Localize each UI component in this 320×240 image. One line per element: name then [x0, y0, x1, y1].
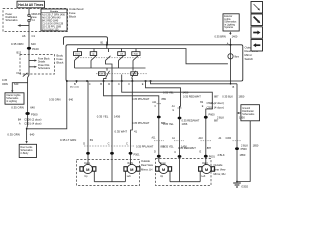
wire 2 BLK branch from ground box	[238, 121, 250, 182]
switch contact Down	[74, 49, 82, 61]
svg-text:ORN: ORN	[2, 82, 8, 86]
svg-text:A10: A10	[199, 137, 204, 140]
svg-text:Block: Block	[57, 60, 64, 64]
node I/P fuse block dashed box	[20, 55, 55, 75]
node fuse block detail table	[41, 9, 67, 31]
svg-text:Fuse: Fuse	[32, 17, 38, 19]
node label 0.35 PPL/WHT 889 upper	[132, 97, 166, 101]
svg-text:Right: Right	[134, 53, 139, 56]
svg-text:Left: Left	[201, 175, 205, 178]
node Power Distribution Schematics label	[6, 13, 19, 22]
node P600 grommet dots	[157, 113, 215, 120]
svg-text:1456: 1456	[183, 91, 189, 95]
svg-text:C: C	[126, 142, 128, 146]
svg-text:Power: Power	[6, 13, 13, 16]
wire YEL RH lower	[179, 106, 181, 182]
svg-text:Distribution: Distribution	[6, 16, 18, 19]
svg-text:0.35: 0.35	[2, 78, 8, 82]
wire BLK main down	[236, 84, 238, 182]
svg-text:A11: A11	[152, 137, 157, 140]
svg-text:Ground: Ground	[242, 107, 250, 110]
svg-text:P500: P500	[31, 112, 38, 116]
svg-text:in Lighting: in Lighting	[6, 100, 17, 103]
node label 0.35 WHT 41	[115, 130, 138, 134]
node label 0.35 ORN 640 branch	[2, 78, 19, 86]
svg-text:Outside: Outside	[214, 163, 223, 167]
svg-text:0.35 YEL: 0.35 YEL	[97, 114, 109, 118]
svg-text:C: C	[108, 142, 110, 146]
node pin B1 top	[101, 42, 107, 49]
svg-text:in Body: in Body	[21, 153, 30, 155]
svg-text:C500 (2 door): C500 (2 door)	[207, 101, 224, 105]
fuse F MIR/LKS 5A	[28, 14, 41, 22]
svg-text:0.35 PPL/WHT: 0.35 PPL/WHT	[132, 97, 150, 101]
node label 2 BLK 1850 lower	[218, 153, 246, 157]
svg-text:0.35 RED/WHT: 0.35 RED/WHT	[183, 95, 201, 99]
svg-text:Down: Down	[160, 163, 167, 165]
svg-text:E3 0.5 BLK 150: E3 0.5 BLK 150	[42, 29, 59, 31]
wire from Hot At All Times to fuse	[28, 8, 30, 14]
svg-text:F12: F12	[17, 71, 22, 75]
svg-text:0.35 ORN: 0.35 ORN	[11, 42, 23, 46]
node connector row A11 A1 A10	[152, 137, 242, 141]
svg-text:P500: P500	[241, 147, 248, 151]
svg-text:2 BLK: 2 BLK	[241, 144, 248, 148]
svg-text:Schematics: Schematics	[242, 113, 255, 116]
ground distribution reference box	[237, 105, 260, 121]
node P100 grommet	[27, 47, 39, 51]
svg-text:B12: B12	[17, 50, 22, 54]
svg-text:B4: B4	[18, 117, 22, 121]
switch contact Left	[118, 49, 126, 61]
svg-text:0.35 ORN: 0.35 ORN	[7, 132, 19, 136]
svg-text:Door Locks: Door Locks	[21, 146, 34, 149]
motor M3 RH up-down	[156, 163, 172, 178]
svg-text:0.35 YEL: 0.35 YEL	[163, 145, 174, 149]
svg-text:887: 887	[207, 146, 212, 150]
svg-text:0.35 ORN: 0.35 ORN	[49, 97, 61, 101]
node LH mirror connector row	[83, 142, 134, 146]
button nav zoom in	[251, 14, 263, 26]
svg-text:Mirror, RH: Mirror, RH	[214, 172, 226, 176]
node P501 grommet dots	[86, 152, 140, 156]
node P601 grommet dots	[157, 154, 216, 158]
node label 0.35 ORN 640	[11, 42, 36, 46]
svg-text:Distribution: Distribution	[242, 110, 254, 113]
node label 0.35 RED/WHT 887 upper	[183, 95, 219, 99]
svg-text:640: 640	[69, 97, 74, 101]
node connector C500 C501 door pins	[152, 101, 224, 112]
wire ground bus BLK	[151, 81, 238, 89]
svg-text:C501 (4 door): C501 (4 door)	[207, 105, 224, 109]
svg-text:887: 887	[214, 95, 219, 99]
svg-text:Switch: Switch	[245, 57, 254, 61]
svg-text:Schematics: Schematics	[6, 19, 19, 22]
svg-text:Block: Block	[69, 14, 77, 18]
svg-text:Down: Down	[75, 54, 80, 56]
svg-text:1850: 1850	[239, 95, 245, 99]
node label 0.35 PPL/WHT 889 lower	[136, 144, 165, 148]
svg-text:A1 0.35 LT GRN 1456: A1 0.35 LT GRN 1456	[42, 13, 66, 16]
wire branch to dimming reference	[11, 83, 27, 93]
node label 0.35 YEL 1456 mid	[163, 122, 188, 126]
node label 0.35 RED/WHT 887 mid	[182, 119, 219, 123]
svg-text:41: 41	[134, 130, 138, 134]
node P500 grommet	[25, 112, 38, 116]
svg-text:2 BLK: 2 BLK	[217, 116, 224, 120]
svg-text:Schematics: Schematics	[38, 67, 51, 70]
svg-text:C1 0.8 DK GRN 139: C1 0.8 DK GRN 139	[42, 23, 64, 25]
svg-text:0.35 YEL: 0.35 YEL	[163, 122, 174, 126]
svg-text:889: 889	[162, 97, 167, 101]
svg-text:0.35 LT GRN: 0.35 LT GRN	[60, 138, 76, 142]
wire YEL RH jog	[146, 81, 181, 106]
wire jog and junction with switch feed	[26, 125, 28, 140]
node fuse block details reference	[29, 59, 51, 70]
node switch bottom pin letters	[70, 81, 144, 88]
svg-text:Mirror, LH: Mirror, LH	[141, 168, 153, 172]
svg-text:C501 (4 door): C501 (4 door)	[24, 121, 41, 125]
svg-text:1850: 1850	[253, 144, 259, 148]
node label 0.35 PPL/WHT 889 mid	[132, 121, 166, 125]
node Outside Rear View Mirror LH label	[141, 159, 153, 172]
svg-text:Circuits: Circuits	[50, 10, 59, 13]
switch select contact RH	[131, 71, 138, 81]
wire YEL LH	[111, 81, 113, 182]
svg-text:1400: 1400	[232, 35, 238, 39]
node P500 dot on BLK	[235, 147, 247, 151]
svg-text:B4 2 RED 1840: B4 2 RED 1840	[42, 20, 59, 22]
svg-text:Outside: Outside	[141, 159, 150, 163]
svg-text:Rear View: Rear View	[214, 167, 226, 171]
svg-text:0.35 YEL: 0.35 YEL	[163, 91, 174, 95]
svg-text:640: 640	[14, 82, 19, 86]
motor M2 LH left-right	[124, 162, 140, 178]
wire fuse output down	[28, 22, 30, 33]
wire RED/WHT jog	[122, 81, 213, 111]
wire RED/WHT lower	[205, 111, 207, 165]
wire BRN 1400 to exterior lights	[229, 31, 231, 44]
svg-text:Systems: Systems	[224, 26, 234, 29]
node Outside Rear View Mirror LH box	[77, 160, 140, 186]
svg-text:C: C	[89, 82, 91, 86]
svg-text:C300: C300	[226, 138, 232, 140]
svg-text:G: G	[172, 110, 174, 112]
node label 0.35 YEL 1456 LH	[97, 114, 121, 118]
node label 0.35 YEL 1456 lower	[163, 145, 187, 149]
wire bus continuation arrow left	[17, 24, 29, 27]
svg-text:640: 640	[30, 132, 35, 136]
button nav next	[251, 27, 263, 39]
node label 0.35 ORN 640 switch feed	[49, 97, 74, 101]
op switch S1 Outside Rear View Mirror Switch box	[66, 45, 243, 81]
wire ORN 640 from fuse block	[28, 33, 29, 83]
svg-text:in Lighting: in Lighting	[224, 23, 235, 26]
svg-text:C: C	[174, 150, 176, 154]
svg-text:Left: Left	[120, 53, 124, 56]
svg-text:C1: C1	[32, 34, 36, 38]
node Outside Rear View Mirror RH label	[214, 163, 226, 176]
lamp illumination	[228, 45, 239, 84]
svg-text:0.35 PPL/WHT: 0.35 PPL/WHT	[136, 144, 154, 148]
svg-text:1456: 1456	[114, 114, 121, 118]
svg-text:B: B	[100, 82, 102, 86]
svg-text:A6 0.35 ORN 640: A6 0.35 ORN 640	[42, 16, 61, 19]
node Underhood Fuse Block label	[69, 7, 84, 18]
svg-text:A6: A6	[22, 34, 26, 38]
ground G302	[233, 181, 248, 189]
wire main ORN continues	[27, 83, 29, 126]
svg-text:E: E	[200, 149, 202, 153]
svg-text:(Not used): (Not used)	[70, 85, 79, 88]
svg-text:C: C	[118, 82, 120, 86]
node interior lights reference box	[5, 93, 24, 104]
svg-text:Right: Right	[128, 162, 134, 165]
switch contact center	[106, 49, 111, 61]
node Hot At All Times title box	[17, 1, 45, 8]
motor M1 LH up-down	[80, 163, 96, 178]
svg-text:Schematics: Schematics	[224, 21, 237, 24]
node label 0.35 BLK 1850	[222, 95, 245, 99]
wire PPL/WHT jog	[104, 81, 162, 165]
node label 0.35 ORN 640 lower	[7, 132, 34, 136]
node raised notch on switch box	[64, 37, 108, 45]
node switch pin nubs	[66, 44, 231, 82]
node Outside Rear View Mirror RH box	[156, 159, 212, 186]
node label 2 BLK 1850 mid	[217, 116, 245, 120]
node Outside Rear View Mirror Switch label	[245, 45, 259, 61]
svg-text:B: B	[233, 85, 235, 89]
svg-text:A11: A11	[152, 101, 157, 104]
node label 0.35 ORN 640 main	[11, 106, 35, 110]
wire ORN switch feed branch	[27, 81, 67, 129]
svg-text:G302: G302	[241, 185, 248, 189]
wire mechanical linkage dashed	[75, 57, 141, 59]
node connector C500 C501	[18, 117, 42, 125]
node door locks reference box	[19, 144, 36, 157]
svg-text:0.35 BLK: 0.35 BLK	[222, 95, 233, 99]
svg-text:Illum: Illum	[234, 57, 239, 59]
wire RH mirror common bus	[170, 171, 200, 182]
svg-text:D2 0.35 PPL 1589: D2 0.35 PPL 1589	[42, 26, 62, 28]
svg-text:P601: P601	[209, 154, 216, 158]
svg-text:P100: P100	[32, 47, 39, 51]
svg-text:Details: Details	[38, 60, 46, 63]
svg-text:0.35 ORN: 0.35 ORN	[11, 106, 23, 110]
svg-text:69: 69	[90, 138, 94, 142]
wire internal supply bus	[78, 49, 228, 64]
svg-text:Power Dist.: Power Dist.	[38, 64, 50, 67]
svg-text:Right: Right	[202, 162, 208, 165]
svg-text:Hot At All Times: Hot At All Times	[18, 3, 43, 7]
node label row 0.35 YEL 1456 upper	[163, 91, 189, 95]
wire arrow into door locks reference	[25, 141, 27, 144]
node I/P Fuse Block label	[57, 53, 64, 64]
button nav zoom out	[251, 2, 263, 14]
svg-text:Schematics: Schematics	[6, 97, 19, 100]
wire LH mirror common bus	[94, 171, 125, 182]
svg-text:MIR/LKS: MIR/LKS	[32, 14, 42, 16]
button nav previous	[251, 40, 263, 52]
svg-text:E: E	[142, 82, 144, 86]
svg-text:5 A: 5 A	[32, 19, 36, 22]
svg-text:D: D	[83, 142, 85, 146]
wire WHT LH	[131, 81, 133, 165]
svg-text:P501: P501	[134, 152, 141, 156]
node pins A6 C1	[22, 34, 36, 38]
svg-text:A: A	[19, 121, 21, 125]
svg-text:A: A	[227, 41, 229, 45]
svg-text:640: 640	[30, 106, 35, 110]
svg-text:Exterior: Exterior	[224, 15, 232, 18]
svg-text:1850: 1850	[240, 153, 246, 157]
switch contact Up	[90, 49, 97, 61]
svg-text:D: D	[154, 149, 156, 153]
wire LT GRN LH	[87, 81, 89, 165]
node RH mirror pin letters D C E	[154, 149, 202, 154]
switch select contact LH	[99, 71, 110, 81]
svg-text:Down: Down	[84, 163, 91, 165]
node label 0.35 RED/WHT 887 lower	[178, 146, 212, 150]
svg-text:1850: 1850	[239, 116, 245, 120]
svg-text:B: B	[74, 82, 76, 86]
svg-text:0.35 RED/WHT: 0.35 RED/WHT	[178, 146, 196, 150]
svg-text:Left: Left	[127, 175, 131, 178]
svg-text:Interior Lights: Interior Lights	[6, 94, 21, 97]
svg-text:0.35 WHT: 0.35 WHT	[115, 130, 128, 134]
wire contact outputs to select section	[75, 60, 146, 81]
node label 0.35 LT GRN 69	[60, 138, 93, 142]
switch contact Right	[132, 49, 140, 61]
svg-text:Lights: Lights	[224, 18, 231, 21]
node label 2 BLK 1850 branch	[241, 144, 259, 148]
underhood fuse block dashed box	[3, 9, 68, 32]
svg-text:Rear View: Rear View	[141, 163, 153, 167]
svg-text:P600: P600	[209, 113, 216, 117]
wire select linkage dashed	[96, 73, 148, 75]
svg-text:Fuse Block: Fuse Block	[38, 59, 50, 61]
svg-text:0.35 RED/WHT: 0.35 RED/WHT	[182, 119, 200, 123]
svg-text:Schematics: Schematics	[21, 149, 34, 152]
svg-text:Up: Up	[92, 54, 94, 56]
svg-text:640: 640	[31, 42, 36, 46]
node label 0.35 BRN 1400	[215, 35, 238, 39]
svg-text:D: D	[108, 82, 110, 86]
svg-text:0.35 BRN: 0.35 BRN	[215, 35, 226, 39]
node exterior lights reference box	[223, 14, 239, 31]
motor M4 RH left-right	[199, 162, 215, 178]
node pin F12 with breakout slash	[17, 71, 28, 77]
svg-text:2 BLK: 2 BLK	[218, 153, 225, 157]
svg-text:0.35 PPL/WHT: 0.35 PPL/WHT	[132, 121, 150, 125]
